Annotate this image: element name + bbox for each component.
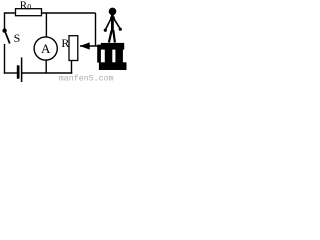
wire bottom left (to battery) [4,72,17,74]
ammeter A body [34,37,57,60]
figure shoulders [110,17,115,21]
electromagnet stack left hanger strip [97,45,101,63]
wire top (from top-left corner to top-right corner) [5,12,96,14]
wire rheostat bottom (to bottom wire) [71,61,73,74]
svg-text:0: 0 [27,2,31,11]
wire left upper (corner down to switch) [4,12,6,29]
svg-text:manfen5.com: manfen5.com [59,73,114,82]
svg-text:S: S [14,31,21,45]
figure left leg [109,30,112,42]
figure right leg [113,30,115,42]
figure right hand [119,28,122,31]
stack left post [105,50,113,63]
switch S contact dot [2,28,6,32]
figure torso [111,15,114,32]
wire right (top-right corner down to slider level) [95,13,97,46]
figure right arm [114,19,120,29]
resistor R0 body [16,9,42,16]
figure left hand [104,29,107,32]
rheostat R body [69,36,78,61]
svg-text:A: A [41,41,51,56]
stack right post [115,50,123,63]
figure left arm [106,19,111,30]
battery positive plate (long thin) [21,57,23,82]
wire ammeter top drop (junction on top wire down to ammeter) [45,13,47,38]
wire bottom middle (battery to rheostat drop) [22,72,73,74]
wire slider shaft (horizontal at slider level) [80,45,102,47]
figure head [109,8,117,16]
switch S blade [5,32,10,44]
rheostat slider arrowhead [80,42,90,49]
wire left lower (switch to bottom wire) [4,44,6,74]
battery negative plate (short thick) [17,65,20,78]
svg-text:R: R [61,36,69,50]
stack bottom bar [99,62,127,70]
electromagnet stack top bar [101,43,124,50]
wire ammeter bottom (to bottom wire) [45,60,47,73]
